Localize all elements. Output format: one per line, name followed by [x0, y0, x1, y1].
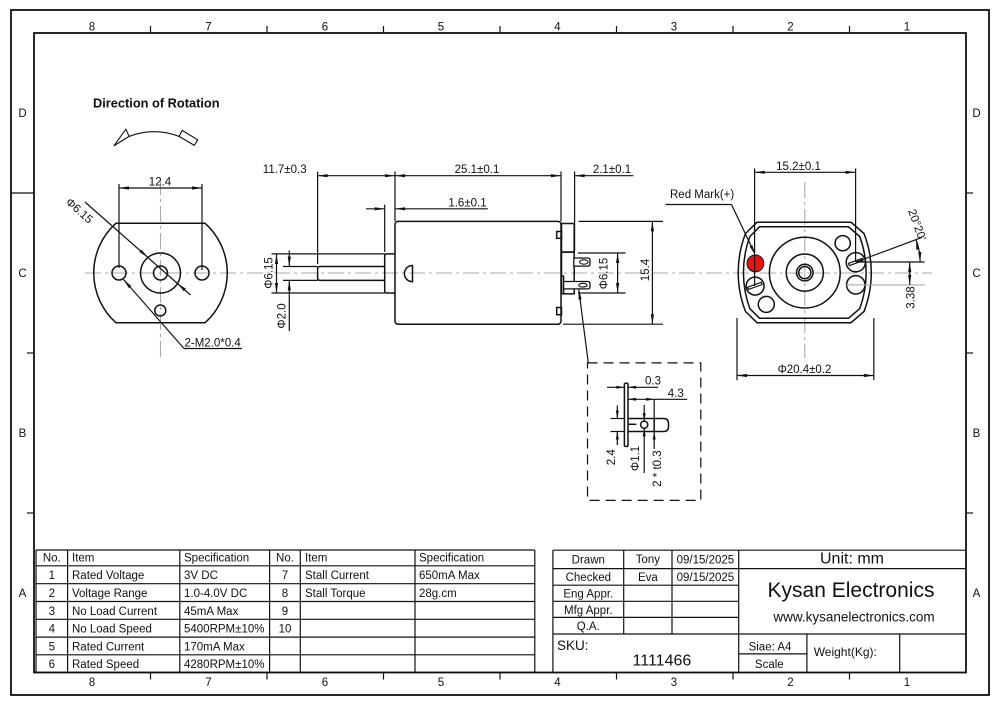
svg-text:7: 7 [282, 570, 288, 582]
svg-text:2: 2 [49, 588, 55, 600]
svg-text:D: D [972, 108, 980, 120]
svg-text:2.1±0.1: 2.1±0.1 [593, 164, 631, 176]
svg-text:Φ1.1: Φ1.1 [630, 446, 642, 471]
rear terminal hole left [746, 277, 764, 295]
svg-text:A: A [973, 588, 981, 600]
svg-text:2: 2 [787, 22, 793, 34]
label Red Mark(+) [666, 189, 756, 255]
dim phi20.4 [737, 318, 874, 380]
svg-text:4.3: 4.3 [668, 388, 684, 400]
svg-text:3: 3 [671, 22, 677, 34]
shaft phi2 extension lines [283, 267, 318, 281]
svg-text:www.kysanelectronics.com: www.kysanelectronics.com [772, 610, 934, 625]
svg-text:Direction of Rotation: Direction of Rotation [93, 96, 220, 111]
svg-text:Q.A.: Q.A. [577, 621, 600, 633]
svg-text:Kysan Electronics: Kysan Electronics [768, 579, 935, 602]
svg-text:SKU:: SKU: [557, 638, 589, 653]
svg-text:2: 2 [787, 677, 793, 689]
svg-text:5: 5 [49, 641, 55, 653]
svg-text:No Load Current: No Load Current [72, 606, 158, 618]
rear shaft circle inner [799, 267, 811, 279]
svg-text:1: 1 [904, 22, 910, 34]
svg-text:5: 5 [438, 22, 444, 34]
side view end cap [562, 224, 575, 294]
dim 25.1 [395, 164, 561, 221]
rear hole bottom-left [758, 296, 774, 312]
terminal lower [564, 282, 590, 289]
svg-text:Mfg Appr.: Mfg Appr. [564, 605, 613, 617]
svg-text:Drawn: Drawn [572, 555, 605, 567]
svg-text:Scale: Scale [755, 659, 784, 671]
side view shaft [318, 267, 385, 281]
svg-text:Φ6.15: Φ6.15 [264, 257, 276, 289]
leader terminal to detail view [579, 290, 589, 363]
svg-text:15.4: 15.4 [640, 258, 652, 281]
svg-text:Weight(Kg):: Weight(Kg): [814, 645, 877, 659]
svg-text:Rated Current: Rated Current [72, 641, 145, 653]
dim phi6.15 left [264, 254, 279, 293]
svg-text:8: 8 [89, 22, 95, 34]
svg-text:8: 8 [89, 677, 95, 689]
svg-text:Rated Speed: Rated Speed [72, 659, 139, 671]
rotation arc arrow [114, 129, 198, 146]
svg-text:Eva: Eva [638, 572, 658, 584]
rear hole top-right [835, 236, 850, 251]
rear shaft circle outer [797, 264, 814, 281]
front view right mounting hole [195, 266, 209, 280]
rear terminal hole right-upper [846, 253, 865, 272]
svg-text:A: A [19, 588, 27, 600]
svg-text:No Load Speed: No Load Speed [72, 624, 152, 636]
svg-text:Voltage Range: Voltage Range [72, 588, 147, 600]
dim 4.3 [628, 388, 687, 419]
front view bottom small hole [155, 305, 166, 316]
detail view dashed box [588, 363, 701, 501]
terminal slot right [848, 258, 862, 265]
dim phi6.15 right [578, 253, 626, 293]
border column labels bottom [89, 677, 910, 689]
svg-text:Tony: Tony [636, 554, 661, 566]
side view motor body [395, 221, 561, 324]
svg-text:6: 6 [322, 22, 328, 34]
svg-text:Unit: mm: Unit: mm [820, 551, 884, 568]
spec table text [43, 552, 484, 671]
side view front boss [385, 254, 395, 293]
dim 15.2 [755, 161, 856, 286]
svg-text:Stall Current: Stall Current [305, 570, 370, 582]
dim 1.6 [366, 197, 488, 252]
rear view outer outline [738, 222, 871, 322]
dim 11.7 [263, 164, 395, 264]
svg-text:15.2±0.1: 15.2±0.1 [776, 161, 821, 173]
spec table grid [36, 550, 535, 672]
svg-text:No.: No. [276, 552, 294, 564]
svg-text:2.4: 2.4 [606, 449, 618, 466]
dim phi2.0 [277, 251, 291, 332]
svg-text:Specification: Specification [419, 552, 484, 564]
dim angle 20deg20 [856, 208, 928, 262]
svg-text:Rated Voltage: Rated Voltage [72, 570, 144, 582]
svg-text:Checked: Checked [566, 572, 611, 584]
boss phi6.15 extension lines [272, 254, 385, 293]
border column ticks bottom [151, 673, 850, 680]
border column labels top [89, 22, 910, 34]
svg-text:09/15/2025: 09/15/2025 [677, 555, 735, 567]
side view vent D-mark [404, 266, 412, 282]
border row ticks left [11, 193, 34, 513]
rear bearing circle [786, 254, 823, 291]
case crimp tab top [557, 232, 562, 239]
svg-text:4280RPM±10%: 4280RPM±10% [184, 659, 264, 671]
front view motor body outline [94, 223, 228, 322]
svg-text:2 * t0.3: 2 * t0.3 [652, 450, 664, 486]
gray line lower-right hole [846, 284, 924, 286]
svg-text:Specification: Specification [184, 552, 249, 564]
svg-text:1111466: 1111466 [633, 653, 692, 670]
svg-text:09/15/2025: 09/15/2025 [677, 572, 735, 584]
svg-text:6: 6 [322, 677, 328, 689]
svg-text:B: B [19, 428, 27, 440]
svg-text:3V DC: 3V DC [184, 570, 218, 582]
svg-text:Red Mark(+): Red Mark(+) [670, 189, 734, 201]
svg-text:D: D [18, 108, 26, 120]
rear end cap circle [769, 237, 840, 308]
svg-text:5: 5 [438, 677, 444, 689]
front view shaft hole [154, 266, 168, 280]
svg-text:6: 6 [49, 659, 55, 671]
svg-text:8: 8 [282, 588, 288, 600]
dim 0.3 [607, 376, 661, 389]
svg-text:4: 4 [554, 22, 561, 34]
rear view inner outline [743, 227, 866, 318]
svg-text:C: C [972, 268, 980, 280]
dim phi1.1 [630, 405, 646, 473]
border column ticks top [151, 26, 850, 33]
label 2-M2.0*0.4 with leader [124, 280, 243, 350]
terminal upper [574, 258, 590, 266]
svg-text:10: 10 [279, 624, 292, 636]
border row ticks right [966, 193, 973, 513]
main horizontal center line [85, 272, 932, 274]
svg-text:7: 7 [205, 677, 211, 689]
svg-text:1.6±0.1: 1.6±0.1 [448, 197, 486, 209]
dim 3.38 [906, 262, 918, 309]
border row labels right [972, 108, 980, 600]
dim 2.4 [606, 405, 625, 465]
svg-text:Φ6.15: Φ6.15 [599, 258, 611, 290]
svg-text:1: 1 [904, 677, 910, 689]
border row labels left [18, 108, 26, 600]
rear view vertical center line [804, 182, 806, 358]
svg-text:B: B [973, 428, 981, 440]
svg-text:Eng Appr.: Eng Appr. [563, 589, 613, 601]
svg-text:650mA Max: 650mA Max [419, 570, 480, 582]
svg-text:1.0-4.0V DC: 1.0-4.0V DC [184, 588, 247, 600]
front view bearing boss circle [141, 253, 181, 293]
dim 12.4 [119, 177, 202, 271]
svg-text:Φ20.4±0.2: Φ20.4±0.2 [778, 364, 832, 376]
svg-text:1: 1 [49, 570, 55, 582]
svg-text:7: 7 [205, 22, 211, 34]
terminal slot left [748, 282, 762, 289]
svg-text:28g.cm: 28g.cm [419, 588, 457, 600]
detail terminal hole [641, 421, 648, 428]
svg-text:5400RPM±10%: 5400RPM±10% [184, 624, 264, 636]
svg-text:Stall Torque: Stall Torque [305, 588, 366, 600]
red mark [747, 255, 764, 272]
svg-text:No.: No. [43, 552, 61, 564]
svg-text:170mA Max: 170mA Max [184, 641, 245, 653]
svg-text:Φ2.0: Φ2.0 [277, 303, 289, 328]
detail terminal tab [628, 419, 669, 432]
title block small texts [563, 554, 876, 671]
svg-text:11.7±0.3: 11.7±0.3 [263, 164, 307, 176]
svg-text:C: C [18, 268, 26, 280]
svg-text:9: 9 [282, 606, 288, 618]
front view vertical center line [160, 179, 162, 357]
dim 2.1 [575, 164, 634, 251]
svg-text:12.4: 12.4 [149, 177, 172, 189]
svg-text:Item: Item [305, 552, 327, 564]
label 2*t0.3 [652, 432, 664, 487]
svg-text:3: 3 [49, 606, 55, 618]
svg-text:4: 4 [49, 624, 56, 636]
case crimp tab bottom [557, 308, 562, 315]
svg-text:45mA Max: 45mA Max [184, 606, 239, 618]
svg-text:2-M2.0*0.4: 2-M2.0*0.4 [185, 338, 242, 350]
title block grid [553, 550, 966, 672]
svg-text:4: 4 [554, 677, 561, 689]
svg-text:0.3: 0.3 [645, 376, 661, 388]
svg-text:3.38: 3.38 [906, 286, 918, 308]
detail terminal plate [624, 383, 628, 446]
svg-text:Siae: A4: Siae: A4 [749, 641, 792, 653]
svg-text:Item: Item [72, 552, 94, 564]
dim phi 6.15 front leader [63, 196, 190, 295]
rear terminal hole right-lower [847, 276, 865, 294]
dim 15.4 [563, 221, 663, 324]
svg-text:25.1±0.1: 25.1±0.1 [455, 164, 500, 176]
svg-text:3: 3 [671, 677, 677, 689]
front view left mounting hole [112, 266, 126, 280]
